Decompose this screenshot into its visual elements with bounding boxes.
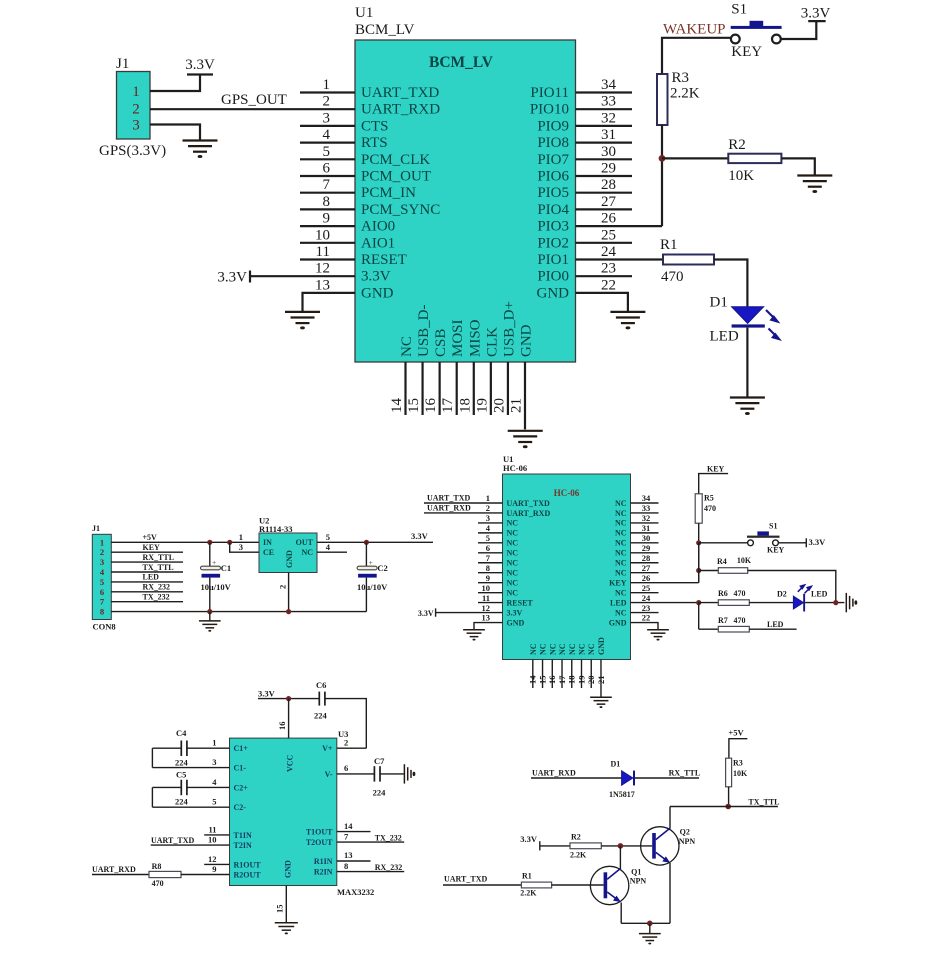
wire U2 NC pin4 xyxy=(317,551,347,553)
svg-text:3.3V: 3.3V xyxy=(507,608,523,617)
svg-text:UART_TXD: UART_TXD xyxy=(507,499,551,508)
svg-text:21: 21 xyxy=(596,676,606,685)
ground for D1 xyxy=(730,398,765,409)
svg-text:CLK: CLK xyxy=(484,327,500,357)
svg-text:12: 12 xyxy=(208,854,217,864)
svg-text:3.3V: 3.3V xyxy=(801,6,831,22)
svg-text:GPS(3.3V): GPS(3.3V) xyxy=(99,143,166,159)
junction at U2 CE branch xyxy=(227,540,232,545)
svg-text:BCM_LV: BCM_LV xyxy=(355,22,415,38)
svg-text:14: 14 xyxy=(528,675,538,684)
svg-text:1: 1 xyxy=(239,532,243,542)
wire S1 to 3.3V power xyxy=(781,21,817,39)
svg-text:5: 5 xyxy=(212,797,216,807)
svg-text:28: 28 xyxy=(642,553,651,563)
svg-text:23: 23 xyxy=(642,603,651,613)
svg-text:5: 5 xyxy=(100,577,104,587)
svg-text:1: 1 xyxy=(323,77,331,93)
junction node R3/R2 xyxy=(659,155,666,162)
svg-text:HC-06: HC-06 xyxy=(554,488,580,498)
svg-text:NC: NC xyxy=(615,529,627,538)
svg-text:25: 25 xyxy=(642,583,651,593)
svg-text:11: 11 xyxy=(482,593,490,603)
svg-text:KEY: KEY xyxy=(707,464,725,473)
svg-text:C4: C4 xyxy=(176,728,187,738)
svg-text:LED: LED xyxy=(610,598,627,607)
svg-text:17: 17 xyxy=(440,398,456,414)
wire pin26 KEY xyxy=(631,582,699,584)
U3 left pin names xyxy=(234,744,262,879)
svg-text:KEY: KEY xyxy=(143,543,161,552)
svg-text:30: 30 xyxy=(601,144,616,160)
svg-text:R3: R3 xyxy=(672,70,690,86)
svg-text:28: 28 xyxy=(601,177,616,193)
U1 left pin numbers 1-13 xyxy=(315,77,331,293)
svg-text:1: 1 xyxy=(212,738,216,748)
svg-text:PIO7: PIO7 xyxy=(537,152,569,168)
CON8 net labels xyxy=(143,533,175,601)
wire HC-06 pin22 GND to ground xyxy=(631,623,659,630)
ground for HC-06 pin21 xyxy=(590,697,612,704)
svg-text:6: 6 xyxy=(486,543,490,553)
svg-text:LED: LED xyxy=(811,590,828,599)
U1 bottom pin wires 14-21 xyxy=(406,362,525,429)
junction right of D2 xyxy=(833,600,838,605)
wire R1 to Q1 base xyxy=(552,884,604,886)
svg-text:16: 16 xyxy=(423,398,439,414)
wire U2 CE pin3 xyxy=(230,542,259,552)
svg-text:C5: C5 xyxy=(176,769,186,779)
wire junction to S1 xyxy=(699,542,748,544)
svg-text:MOSI: MOSI xyxy=(450,319,466,357)
svg-text:PCM_SYNC: PCM_SYNC xyxy=(361,202,440,218)
U2 pin names xyxy=(263,538,314,568)
wire U1 pin24 to R1 xyxy=(576,258,664,260)
op-amp U1 HC-06 module body (middle) xyxy=(503,474,631,660)
wire UART_RXD through R8 to U3 pin9 xyxy=(92,874,149,876)
svg-text:2.2K: 2.2K xyxy=(570,851,587,860)
svg-text:T2IN: T2IN xyxy=(234,841,252,850)
svg-text:224: 224 xyxy=(373,788,387,798)
svg-text:C1+: C1+ xyxy=(234,744,249,753)
svg-text:3: 3 xyxy=(132,118,140,134)
resistor R1 body xyxy=(663,255,714,265)
wire junction down to Q2 collector xyxy=(669,807,671,829)
svg-text:TX_232: TX_232 xyxy=(143,593,170,602)
ground for U3 pin15 xyxy=(275,923,298,930)
svg-text:3: 3 xyxy=(239,542,243,552)
svg-text:D1: D1 xyxy=(710,295,728,311)
svg-text:3: 3 xyxy=(323,110,331,126)
resistor R1 body (bottom) xyxy=(521,882,551,888)
svg-text:17: 17 xyxy=(557,675,567,684)
wire R7 to LED net label xyxy=(749,628,796,630)
svg-text:RTS: RTS xyxy=(361,135,388,151)
svg-text:NC: NC xyxy=(615,549,627,558)
U3 right pin names xyxy=(306,744,333,876)
svg-text:NC: NC xyxy=(507,549,519,558)
wire 3.3V to R2 (transistor) xyxy=(520,834,570,850)
U3 left pin numbers xyxy=(208,738,217,874)
svg-text:MAX3232: MAX3232 xyxy=(337,887,374,897)
op-amp U2 R1114-33 regulator body xyxy=(259,533,317,573)
wire D1 to RX_TTL xyxy=(635,777,699,779)
wire U3 pin8 to RX_232 xyxy=(337,871,404,873)
wire R3 to TX_TTL junction xyxy=(728,787,730,807)
D1 light arrows xyxy=(766,310,779,339)
HC-06 left pin wires xyxy=(478,523,503,603)
ground at C1 rail xyxy=(209,612,211,621)
wire U3 pin14 xyxy=(337,831,371,833)
svg-text:R1IN: R1IN xyxy=(314,857,333,866)
resistor R3 body xyxy=(657,74,668,125)
wire UART_RXD to D1 (bottom right) xyxy=(531,777,622,779)
wire pin24 LED row xyxy=(631,602,699,604)
svg-text:NC: NC xyxy=(507,529,519,538)
svg-text:NPN: NPN xyxy=(679,837,696,846)
svg-text:BCM_LV: BCM_LV xyxy=(429,54,494,71)
svg-text:470: 470 xyxy=(734,616,746,625)
svg-text:KEY: KEY xyxy=(767,546,785,555)
svg-text:C2-: C2- xyxy=(234,803,247,812)
svg-text:HC-06: HC-06 xyxy=(503,463,527,473)
power symbol 3.3V top-left xyxy=(187,73,213,75)
svg-text:3.3V: 3.3V xyxy=(520,834,538,844)
resistor R4 body xyxy=(718,568,747,574)
svg-text:1N5817: 1N5817 xyxy=(609,790,635,799)
U3 pin2 wire V+ xyxy=(337,747,367,749)
svg-text:15: 15 xyxy=(406,398,422,413)
svg-text:3: 3 xyxy=(212,757,216,767)
svg-text:R1114-33: R1114-33 xyxy=(259,524,293,534)
HC-06 left pin names xyxy=(507,499,551,628)
svg-text:UART_TXD: UART_TXD xyxy=(361,85,439,101)
HC-06 right pin numbers xyxy=(642,493,651,623)
svg-text:8: 8 xyxy=(486,563,490,573)
svg-text:WAKEUP: WAKEUP xyxy=(663,22,726,38)
svg-text:NC: NC xyxy=(399,336,415,357)
svg-text:PIO4: PIO4 xyxy=(537,202,569,218)
J1 pin numbers 1-3 xyxy=(132,84,140,134)
svg-text:7: 7 xyxy=(323,177,331,193)
svg-text:6: 6 xyxy=(100,587,104,597)
svg-text:PIO2: PIO2 xyxy=(537,235,569,251)
svg-text:NC: NC xyxy=(548,643,557,655)
svg-text:T1IN: T1IN xyxy=(234,831,252,840)
svg-text:10u/10V: 10u/10V xyxy=(357,582,388,592)
junction C1 at rail xyxy=(207,609,212,614)
svg-text:11: 11 xyxy=(208,824,216,834)
junction R4 branch xyxy=(696,568,701,573)
svg-text:30: 30 xyxy=(642,533,651,543)
capacitor C1 10u/10V xyxy=(201,542,221,611)
junction LED row left xyxy=(696,600,701,605)
U1 right pin numbers 34-22 xyxy=(601,77,617,293)
svg-text:3.3V: 3.3V xyxy=(809,537,827,547)
svg-text:1: 1 xyxy=(132,84,140,100)
transistor Q2 NPN xyxy=(641,827,679,865)
svg-text:22: 22 xyxy=(642,613,651,623)
wire +5V rail CON8 pin1 to U2 IN xyxy=(111,541,259,543)
svg-text:NC: NC xyxy=(615,559,627,568)
wire UART_TXD to HC-06 pin1 xyxy=(424,502,503,504)
svg-text:2.2K: 2.2K xyxy=(520,888,537,897)
svg-text:2: 2 xyxy=(100,547,104,557)
svg-text:CON8: CON8 xyxy=(93,622,116,632)
svg-text:10: 10 xyxy=(208,835,217,845)
junction at C2 xyxy=(364,540,369,545)
svg-text:29: 29 xyxy=(601,161,616,177)
svg-text:RESET: RESET xyxy=(361,252,407,268)
svg-text:Q1: Q1 xyxy=(631,867,641,876)
wire UART_TXD to U3 pin10 xyxy=(151,844,230,846)
svg-text:16: 16 xyxy=(277,722,287,731)
svg-text:NC: NC xyxy=(578,643,587,655)
ground for U1 pin22 xyxy=(610,312,645,323)
svg-text:16: 16 xyxy=(547,676,557,685)
svg-text:5: 5 xyxy=(326,532,330,542)
svg-text:R5: R5 xyxy=(704,494,714,503)
svg-text:26: 26 xyxy=(601,211,617,227)
wire U3 pin11 xyxy=(204,834,229,836)
svg-text:8: 8 xyxy=(100,607,104,617)
svg-text:R8: R8 xyxy=(152,862,162,871)
svg-text:3: 3 xyxy=(486,513,490,523)
svg-text:R1: R1 xyxy=(522,872,532,881)
svg-text:13: 13 xyxy=(482,613,491,623)
wire J1 pin1 to 3.3V xyxy=(150,75,200,92)
U1 bottom pin numbers 14-21 xyxy=(389,398,524,414)
svg-text:10u/10V: 10u/10V xyxy=(201,582,232,592)
svg-text:RX_TTL: RX_TTL xyxy=(143,553,175,562)
U1 left pin names xyxy=(361,85,440,301)
svg-text:+: + xyxy=(212,558,216,567)
svg-text:NPN: NPN xyxy=(630,877,647,886)
svg-text:2: 2 xyxy=(277,585,287,589)
junction TX_TTL xyxy=(725,804,731,810)
svg-text:S1: S1 xyxy=(731,2,747,18)
svg-text:PIO8: PIO8 xyxy=(537,135,569,151)
LED D2 symbol xyxy=(793,594,805,612)
svg-text:PCM_CLK: PCM_CLK xyxy=(361,152,430,168)
svg-text:CSB: CSB xyxy=(433,329,449,357)
svg-text:20: 20 xyxy=(491,398,507,413)
svg-text:NC: NC xyxy=(558,643,567,655)
wire UART_TXD to R1 (transistor) xyxy=(443,884,521,886)
svg-text:2.2K: 2.2K xyxy=(670,86,700,102)
wire TX_TTL row xyxy=(670,806,778,808)
svg-text:V+: V+ xyxy=(322,744,333,753)
svg-text:LED: LED xyxy=(767,620,784,629)
svg-text:UART_TXD: UART_TXD xyxy=(427,494,471,503)
svg-text:D2: D2 xyxy=(777,590,787,599)
wire C7 to ground xyxy=(380,773,404,775)
svg-text:3: 3 xyxy=(100,557,104,567)
svg-text:2: 2 xyxy=(486,503,490,513)
wire U2 OUT to 3.3V xyxy=(317,541,433,543)
wire LED junction down to R7 xyxy=(698,603,700,630)
svg-text:33: 33 xyxy=(642,503,651,513)
U1 left pin wires xyxy=(300,93,355,260)
svg-text:NC: NC xyxy=(615,519,627,528)
svg-text:C2+: C2+ xyxy=(234,783,249,792)
svg-text:13: 13 xyxy=(315,277,330,293)
connector J1 CON8 xyxy=(92,534,111,619)
junction Q2 base / Q1 collector xyxy=(618,843,624,849)
svg-text:USB_D-: USB_D- xyxy=(416,304,432,357)
svg-text:USB_D+: USB_D+ xyxy=(501,301,517,357)
svg-text:R4: R4 xyxy=(717,557,727,566)
power symbol 3.3V top-right xyxy=(808,20,825,22)
svg-text:470: 470 xyxy=(704,504,716,513)
ground for U1 pin13 xyxy=(285,312,320,323)
svg-text:1: 1 xyxy=(486,493,490,503)
svg-text:23: 23 xyxy=(601,261,616,277)
wire R1 to LED D1 xyxy=(714,260,747,307)
svg-text:TX_232: TX_232 xyxy=(375,833,402,842)
junction U2 GND at rail xyxy=(286,609,291,614)
svg-text:3.3V: 3.3V xyxy=(217,270,247,286)
svg-text:GND: GND xyxy=(285,550,294,568)
capacitor C6 xyxy=(319,692,325,706)
svg-text:GND: GND xyxy=(518,324,534,357)
power +5V xyxy=(728,728,747,759)
wire Q1 emitter down xyxy=(620,903,622,924)
svg-text:27: 27 xyxy=(601,194,617,210)
wire node to R2 xyxy=(662,157,728,159)
svg-text:RX_232: RX_232 xyxy=(375,863,403,872)
resistor R8 body xyxy=(149,871,181,877)
wire to ground symbol xyxy=(649,923,651,933)
wire C6 to V+ pin2 xyxy=(325,699,366,749)
svg-text:14: 14 xyxy=(344,821,353,831)
svg-text:MISO: MISO xyxy=(467,319,483,357)
svg-text:PIO5: PIO5 xyxy=(537,185,569,201)
svg-text:+5V: +5V xyxy=(143,533,158,542)
svg-text:19: 19 xyxy=(474,398,490,413)
svg-text:GND: GND xyxy=(507,618,525,627)
svg-text:15: 15 xyxy=(275,905,285,914)
svg-text:9: 9 xyxy=(486,573,490,583)
ground for U1 pin 21 xyxy=(508,431,543,442)
svg-text:NC: NC xyxy=(615,588,627,597)
svg-text:NC: NC xyxy=(615,499,627,508)
svg-text:20: 20 xyxy=(586,676,596,685)
CON8 pin numbers 1-8 xyxy=(100,537,105,616)
svg-text:KEY: KEY xyxy=(609,578,627,587)
svg-text:NC: NC xyxy=(507,569,519,578)
U1 right pin names xyxy=(530,85,570,301)
svg-text:10K: 10K xyxy=(728,168,754,184)
wire node to U1 pin26 xyxy=(576,225,663,227)
svg-text:NC: NC xyxy=(529,643,538,655)
svg-text:PIO10: PIO10 xyxy=(530,102,569,118)
svg-text:32: 32 xyxy=(601,110,616,126)
wire 3.3V to U1 pin12 xyxy=(250,275,355,277)
svg-text:TX_TTL: TX_TTL xyxy=(143,563,174,572)
capacitor C4 with loop pins1-3 xyxy=(152,741,229,768)
svg-text:6: 6 xyxy=(323,161,331,177)
wire emitter ground rail xyxy=(621,922,670,924)
wire UART_RXD to HC-06 pin2 xyxy=(424,512,503,514)
switch S1 (top) xyxy=(731,21,782,44)
U1 right pin wires xyxy=(576,93,633,277)
svg-text:C7: C7 xyxy=(374,756,385,766)
svg-text:NC: NC xyxy=(507,539,519,548)
resistor R5 body xyxy=(695,494,702,523)
svg-text:PIO11: PIO11 xyxy=(530,85,569,101)
svg-text:NC: NC xyxy=(615,539,627,548)
wire GPS_OUT net J1 pin2 to U1 pin2 xyxy=(150,108,355,110)
svg-text:470: 470 xyxy=(152,879,164,888)
resistor R2 body (bottom) xyxy=(570,843,601,849)
HC-06 right pin wires xyxy=(631,503,659,613)
svg-text:R1OUT: R1OUT xyxy=(234,860,262,869)
wire R2 to ground xyxy=(781,158,814,175)
svg-text:9: 9 xyxy=(212,864,216,874)
svg-text:CTS: CTS xyxy=(361,118,389,134)
wire U3 pin13 xyxy=(337,860,371,862)
U1 bottom pin names xyxy=(399,301,534,357)
svg-text:RX_232: RX_232 xyxy=(143,583,171,592)
resistor R3 body (bottom) xyxy=(726,758,732,787)
wire R8 to U3 pin9 xyxy=(181,874,230,876)
connector J1 (GPS) xyxy=(117,72,151,140)
svg-text:5: 5 xyxy=(486,533,490,543)
wire CON8 pin8 ground rail xyxy=(111,611,366,613)
ground for HC-06 pin13 xyxy=(463,630,485,637)
svg-text:NC: NC xyxy=(568,643,577,655)
svg-text:GND: GND xyxy=(609,618,627,627)
svg-text:R2OUT: R2OUT xyxy=(234,871,262,880)
svg-text:UART_RXD: UART_RXD xyxy=(361,102,440,118)
svg-text:33: 33 xyxy=(601,94,616,110)
svg-text:NC: NC xyxy=(615,569,627,578)
resistor R7 body xyxy=(718,626,749,632)
svg-text:T2OUT: T2OUT xyxy=(306,838,333,847)
svg-text:NC: NC xyxy=(507,578,519,587)
svg-text:LED: LED xyxy=(143,573,160,582)
svg-text:10: 10 xyxy=(315,227,330,243)
svg-text:LED: LED xyxy=(710,329,739,345)
ground for R2 xyxy=(797,176,832,187)
wire KEY vertical to pin26 xyxy=(698,543,700,583)
svg-text:GND: GND xyxy=(537,285,570,301)
wire U3 pin15 GND xyxy=(285,886,287,923)
svg-text:27: 27 xyxy=(642,563,651,573)
svg-text:R3: R3 xyxy=(733,758,743,767)
junction R5/S1 xyxy=(696,540,701,545)
transistor Q1 NPN xyxy=(590,866,628,904)
resistor R6 body xyxy=(718,600,749,606)
svg-text:19: 19 xyxy=(576,676,586,685)
ground right-facing for C7 xyxy=(404,764,411,783)
ground right-facing for D2 xyxy=(846,593,853,612)
svg-text:RX_TTL: RX_TTL xyxy=(669,769,701,778)
svg-text:PIO0: PIO0 xyxy=(537,269,569,285)
HC-06 bottom pin numbers 14-21 xyxy=(528,675,606,684)
svg-text:6: 6 xyxy=(344,763,348,773)
svg-text:OUT: OUT xyxy=(296,538,314,547)
wire D2 to ground node xyxy=(805,602,844,604)
wire R4 right to LED node xyxy=(748,571,836,602)
capacitor C2 10u/10V xyxy=(357,542,377,611)
HC-06 left pin numbers xyxy=(482,493,491,623)
svg-text:NC: NC xyxy=(507,519,519,528)
svg-text:GND: GND xyxy=(361,285,394,301)
svg-text:31: 31 xyxy=(601,127,616,143)
wire U1 pin22 GND to ground xyxy=(576,293,628,312)
